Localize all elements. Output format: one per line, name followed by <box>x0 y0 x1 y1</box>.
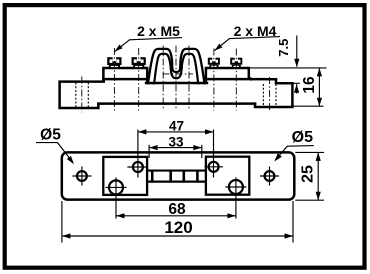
dimension 33 <box>149 134 202 158</box>
screw M4 #2 <box>230 56 242 68</box>
svg-text:16: 16 <box>301 76 318 94</box>
segmented element strip plan <box>147 170 206 183</box>
bar top left of middle <box>103 78 147 81</box>
label 2 x M5 with leader <box>115 23 182 52</box>
terminal block 1 plan <box>103 157 147 195</box>
label Ø5 right with leader <box>274 129 314 162</box>
right end cap <box>255 79 292 107</box>
terminal block 2 (M4) <box>206 68 251 83</box>
dimension 16 <box>301 68 322 106</box>
extension line block top <box>249 67 327 69</box>
dimension 120 <box>62 201 293 243</box>
centerline hump 1 <box>162 46 164 110</box>
svg-text:7.5: 7.5 <box>276 39 291 57</box>
label 2 x M4 with leader <box>215 23 280 51</box>
centerline hump 2 <box>188 46 190 110</box>
svg-text:Ø5: Ø5 <box>40 127 61 144</box>
centerline dip <box>175 46 177 110</box>
svg-text:120: 120 <box>164 218 192 237</box>
middle milled base line <box>146 82 207 85</box>
centerline screw M5 #1 <box>113 48 115 111</box>
centerline screw M4 #2 <box>235 49 237 111</box>
side view outline <box>60 68 293 108</box>
small hole block2 <box>205 162 224 172</box>
resistive element wavy strip <box>140 49 212 103</box>
right end hole <box>260 167 279 186</box>
svg-text:Ø5: Ø5 <box>292 129 313 146</box>
plate outline <box>62 152 294 199</box>
left end cap <box>60 82 104 108</box>
small hole block1 <box>127 162 146 172</box>
svg-text:68: 68 <box>168 201 186 218</box>
dimension 7.5 <box>276 36 300 68</box>
extension line bottom right <box>293 105 324 107</box>
big hole block2 <box>225 180 246 194</box>
svg-text:25: 25 <box>300 165 317 183</box>
dimension 25 <box>295 152 324 200</box>
bar bottom <box>98 102 255 105</box>
svg-text:33: 33 <box>168 134 184 149</box>
screw M5 #2 <box>132 55 146 68</box>
dimension 68 <box>116 177 236 218</box>
centerline screw M4 #1 <box>213 49 215 111</box>
centerlines side view <box>82 46 270 113</box>
centerline right end hole <box>269 77 271 112</box>
big hole block1 <box>106 180 127 194</box>
centerline screw M5 #2 <box>138 48 140 111</box>
bar top right of middle <box>206 78 276 81</box>
svg-text:47: 47 <box>169 118 184 133</box>
svg-text:2 x M5: 2 x M5 <box>137 23 180 39</box>
terminal block 1 (M5) <box>103 68 147 83</box>
dimension 47 <box>138 118 214 177</box>
cap top short extension + small arrow <box>293 83 300 93</box>
screw M5 #1 <box>107 55 121 68</box>
horizontal centerline at dip <box>163 73 194 75</box>
centerline left end hole <box>81 77 83 113</box>
hidden hole lines side view <box>76 83 276 108</box>
label Ø5 left with leader <box>36 127 74 165</box>
left end hole <box>72 167 91 186</box>
terminal block 2 plan <box>206 157 249 195</box>
screw M4 #1 <box>208 56 220 68</box>
